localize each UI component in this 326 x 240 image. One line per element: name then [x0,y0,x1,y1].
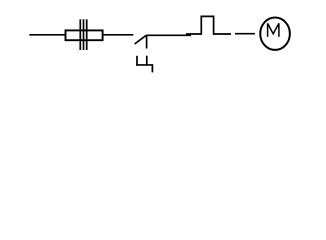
3-phase tick 3 [86,19,88,50]
actuator pedal right side [146,56,148,66]
wire pulse-to-motor [235,33,255,35]
wire fuse-to-switch [103,34,134,36]
actuator pedal bottom and hook [136,65,152,72]
wire switch-to-pulse [146,34,191,36]
3-phase tick 1 [79,19,81,50]
3-phase tick 2 [83,19,85,50]
fuse F1 (3-phase fuse box) [66,30,103,40]
pulse shaper (rectangular impulse) [186,16,231,34]
motor label M [268,23,279,36]
wire supply-left [29,34,66,36]
actuator pedal left side [136,56,138,66]
switch S1 blade (make contact, shown open) [135,35,147,44]
motor M1 circle [260,18,290,50]
mechanical link (switch to actuator) [146,35,148,48]
